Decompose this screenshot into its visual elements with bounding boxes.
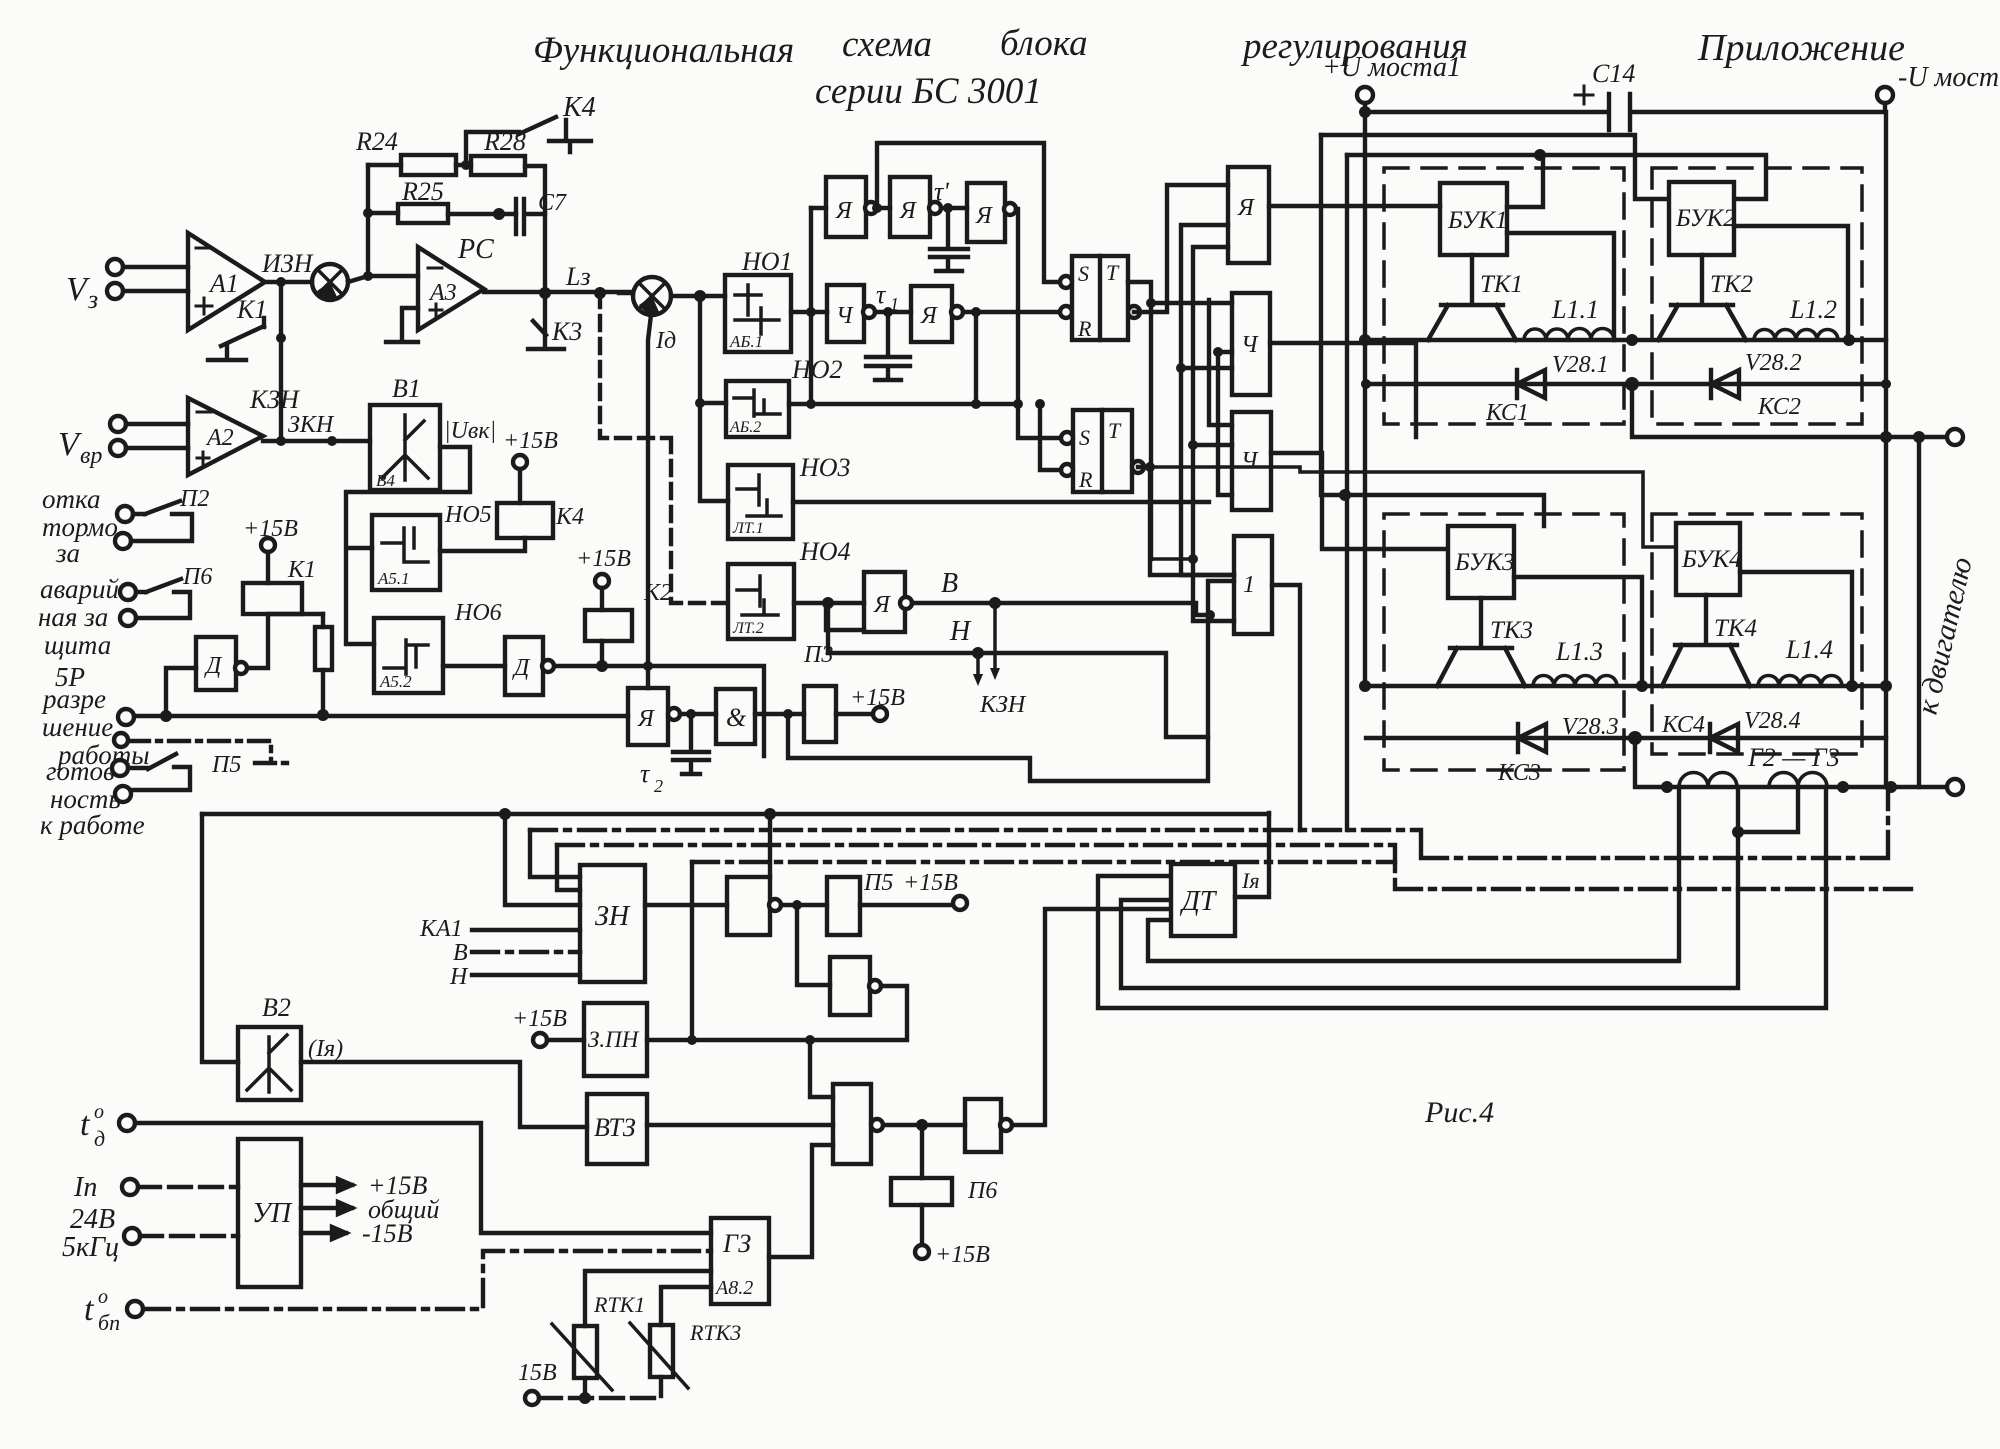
svg-text:Я: Я xyxy=(1237,195,1255,221)
svg-text:блока: блока xyxy=(1000,23,1088,64)
svg-text:АБ.2: АБ.2 xyxy=(729,419,761,436)
wire БУК1 output riser xyxy=(1507,233,1614,340)
svg-text:t: t xyxy=(84,1291,95,1328)
svg-text:КЗН: КЗН xyxy=(249,385,300,414)
node t°бп input xyxy=(84,1286,120,1335)
svg-text:R: R xyxy=(1078,467,1093,492)
svg-text:Ч: Ч xyxy=(1241,332,1259,358)
gate B (row1) xyxy=(890,177,930,237)
wire БУК2 output riser xyxy=(1734,226,1848,340)
wire bus v1 stub to Г2 xyxy=(1151,301,1232,305)
svg-text:А5.2: А5.2 xyxy=(379,672,412,691)
op-amp А2 xyxy=(188,398,263,475)
svg-text:разре: разре xyxy=(41,684,106,714)
svg-text:ДТ: ДТ xyxy=(1179,886,1218,917)
svg-text:аварий: аварий xyxy=(40,574,120,604)
wire bus v3 xyxy=(1181,225,1234,575)
svg-text:НО2: НО2 xyxy=(791,355,843,384)
wire В1 output loop down to НО5/НО6 xyxy=(346,447,470,644)
trigger Т2 (S-R) xyxy=(1061,410,1144,492)
wire Lз node to multiplier xyxy=(619,291,633,295)
svg-text:Приложение: Приложение xyxy=(1697,27,1905,69)
wire БУК1 top link xyxy=(1507,155,1543,207)
svg-text:В4: В4 xyxy=(376,471,395,490)
svg-text:А5.1: А5.1 xyxy=(377,569,410,588)
node КЗН arrows xyxy=(978,603,995,680)
wire БУК3 output riser xyxy=(1514,577,1642,686)
wire В2 loop vertical xyxy=(202,814,238,1062)
gate НЕ2 xyxy=(797,905,830,985)
diode line 2 xyxy=(1366,736,1886,740)
gate НЕ5 xyxy=(965,1099,1001,1152)
svg-text:ная за: ная за xyxy=(38,602,108,632)
wire right inner vertical xyxy=(1917,437,1921,787)
switch К1 (contact to ground) xyxy=(208,295,267,360)
wire module2 output line xyxy=(1635,738,1948,787)
multiplier Lд xyxy=(633,277,676,354)
wire Г2 output to module mid line xyxy=(1270,343,1416,437)
svg-text:+15В: +15В xyxy=(576,546,631,572)
wire multiplier bottom to Я-gate xyxy=(648,315,651,688)
svg-text:П6: П6 xyxy=(967,1178,997,1204)
wire ВТЗ output to НЕ4 xyxy=(647,1123,833,1127)
gate Г3 xyxy=(1232,412,1271,510)
svg-text:Г2 — Г3: Г2 — Г3 xyxy=(1747,743,1840,772)
wire multiplier to A3 summing node xyxy=(348,276,418,282)
svg-text:L1.2: L1.2 xyxy=(1789,295,1837,324)
wire ГЗ output to НЕ4 xyxy=(769,1145,833,1257)
wire НО2 output line xyxy=(789,312,1018,404)
wire Н bus stub to Г3 xyxy=(1209,300,1232,425)
wire bus1 xyxy=(202,812,1269,816)
wire bus3 drop to ЗН xyxy=(557,845,580,890)
svg-text:R25: R25 xyxy=(401,177,444,206)
wire Lд node down to НО2 / НО3 xyxy=(700,296,728,501)
svg-text:В: В xyxy=(941,568,958,599)
gate E (row2) xyxy=(911,286,952,342)
svg-text:Я: Я xyxy=(873,592,891,618)
svg-text:(Iя): (Iя) xyxy=(308,1036,343,1062)
svg-text:o: o xyxy=(94,1101,104,1123)
svg-text:RТК1: RТК1 xyxy=(593,1292,645,1317)
node t°д input xyxy=(80,1101,105,1151)
svg-text:S: S xyxy=(1078,261,1089,286)
svg-text:А2: А2 xyxy=(205,425,234,451)
svg-text:Я: Я xyxy=(920,303,938,329)
wire НЕ2 out to ЗПН line xyxy=(810,986,907,1040)
wire bus2 drop to ЗН xyxy=(530,830,580,877)
svg-text:отка: отка xyxy=(42,484,100,514)
wire bus1 drop at 770 xyxy=(768,814,772,877)
svg-text:БУК1: БУК1 xyxy=(1447,207,1508,234)
gate Г2 xyxy=(1232,293,1270,395)
svg-text:R24: R24 xyxy=(355,127,398,156)
svg-text:КА1: КА1 xyxy=(419,916,463,942)
svg-text:К1: К1 xyxy=(287,557,316,583)
svg-text:15В: 15В xyxy=(518,1360,557,1386)
wire Т2 output to БУК4 feed line xyxy=(1138,467,1234,575)
wire branch down to bus xyxy=(788,581,1234,781)
multiplier (Из·Н) xyxy=(312,264,348,300)
relay П6 xyxy=(920,1125,924,1178)
wire В2 output to ВТЗ xyxy=(301,1062,587,1127)
svg-text:П2: П2 xyxy=(179,486,209,512)
svg-text:Н: Н xyxy=(949,616,972,647)
svg-text:L1.3: L1.3 xyxy=(1555,637,1603,666)
block ВТЗ xyxy=(587,1094,647,1164)
wire upper loop y155 xyxy=(1347,155,1766,199)
block БУК2 xyxy=(1669,182,1734,255)
svg-text:П5: П5 xyxy=(863,870,893,896)
svg-text:t: t xyxy=(80,1106,91,1143)
wire Г1 output into БУК1 xyxy=(1269,204,1440,208)
svg-text:|Uвк|: |Uвк| xyxy=(444,418,496,444)
svg-text:Iя: Iя xyxy=(1241,868,1260,893)
node Vз input terminals xyxy=(66,259,123,314)
svg-text:ТК3: ТК3 xyxy=(1490,617,1533,644)
svg-text:V28.3: V28.3 xyxy=(1562,714,1619,740)
svg-text:вр: вр xyxy=(80,443,102,469)
svg-text:серии БС 3001: серии БС 3001 xyxy=(815,71,1042,112)
svg-text:КС3: КС3 xyxy=(1497,760,1541,786)
logic gate Д2 xyxy=(505,637,543,695)
svg-text:ЛТ.2: ЛТ.2 xyxy=(732,620,764,637)
svg-text:Функциональная: Функциональная xyxy=(533,30,794,71)
svg-text:ИЗН: ИЗН xyxy=(261,249,314,278)
wire bus4 xyxy=(692,860,1395,864)
wire C out down to trigger2 S xyxy=(1016,209,1066,438)
trigger Т1 (S-R) xyxy=(1060,256,1140,341)
block УП xyxy=(238,1139,301,1287)
svg-text:БУК2: БУК2 xyxy=(1675,205,1736,232)
block БУК3 xyxy=(1448,526,1514,598)
wire Г3 output to БУК3 xyxy=(1271,453,1448,549)
svg-text:П5: П5 xyxy=(211,752,241,778)
wire left loop verticals xyxy=(1321,135,1544,526)
svg-text:Я: Я xyxy=(975,203,993,229)
svg-text:Я: Я xyxy=(637,706,655,732)
wire right edge bus xyxy=(1884,112,1888,787)
wire multiplier output xyxy=(671,294,725,298)
svg-text:L1.4: L1.4 xyxy=(1785,635,1833,664)
svg-text:+15В: +15В xyxy=(935,1242,990,1268)
svg-text:Я: Я xyxy=(835,198,853,224)
svg-text:RТК3: RТК3 xyxy=(689,1320,741,1345)
node УП outputs xyxy=(301,1179,352,1191)
wire Г4 output down to bus xyxy=(1272,585,1300,830)
svg-text:КЗН: КЗН xyxy=(979,692,1027,718)
svg-text:Iд: Iд xyxy=(655,328,676,354)
svg-text:БУК3: БУК3 xyxy=(1454,549,1515,576)
capacitor τ2 xyxy=(673,714,709,774)
svg-text:τ: τ xyxy=(640,759,651,788)
gate & xyxy=(716,689,755,744)
svg-text:+15В: +15В xyxy=(512,1006,567,1032)
svg-text:БУК4: БУК4 xyxy=(1681,546,1742,573)
module 3 dashed box xyxy=(1384,514,1624,770)
wire ДТ output riser xyxy=(1235,813,1269,897)
svg-text:УП: УП xyxy=(252,1198,293,1229)
gate Г4 xyxy=(1234,536,1272,634)
gate Г1 xyxy=(1228,167,1269,263)
wire dashed А3 feedback down / to НО4 xyxy=(600,293,728,603)
wire t°бп to ГЗ xyxy=(143,1251,711,1309)
wire Г2/Г3 mid tap xyxy=(1121,787,1798,988)
node Vвр input terminals xyxy=(58,416,126,469)
wire riser row1 input xyxy=(809,208,813,404)
capacitor τ'1 xyxy=(930,208,968,271)
wire feedback left rail xyxy=(366,165,370,276)
wire module1 output line xyxy=(1632,384,1948,437)
svg-text:к работе: к работе xyxy=(40,810,145,840)
node КА1 В Н inputs xyxy=(419,916,469,990)
capacitor τ1 xyxy=(866,312,910,380)
svg-text:R: R xyxy=(1077,316,1092,341)
node аварийная защита 5Р input xyxy=(38,574,120,692)
svg-text:схема: схема xyxy=(842,24,932,65)
svg-text:РС: РС xyxy=(457,234,494,265)
wire bus3 (dash-dot) xyxy=(557,845,1918,889)
node Iп 24В 5кГц inputs xyxy=(62,1172,119,1263)
svg-text:В1: В1 xyxy=(392,374,421,403)
gate D (row2) xyxy=(827,285,864,342)
svg-text:КС2: КС2 xyxy=(1757,394,1801,420)
svg-text:А1: А1 xyxy=(208,269,239,298)
svg-text:шение: шение xyxy=(42,712,113,742)
wire bus v6 xyxy=(1218,352,1232,495)
wire Vз to A1 xyxy=(123,267,188,291)
wire E out to trigger R xyxy=(963,310,1066,314)
svg-text:+15В: +15В xyxy=(850,685,905,711)
svg-text:τʹ: τʹ xyxy=(934,177,949,206)
block БУК4 xyxy=(1676,523,1740,595)
gate A (row1) xyxy=(826,177,866,237)
node ОТКЛ ТОРМОЗА input xyxy=(42,484,118,568)
svg-text:д: д xyxy=(94,1126,105,1151)
resistor R (К1 circuit) xyxy=(315,627,332,670)
svg-text:З.ПН: З.ПН xyxy=(588,1027,640,1052)
gate Я (τ2 input) xyxy=(628,688,668,745)
emitter rail module2 xyxy=(1366,684,1886,688)
svg-text:П6: П6 xyxy=(182,564,212,590)
svg-text:Iп: Iп xyxy=(73,1172,97,1203)
title: Функциональная схема блока регулирования серии БС 3001 xyxy=(533,23,1905,1129)
svg-text:ТК1: ТК1 xyxy=(1480,271,1523,298)
svg-text:5кГц: 5кГц xyxy=(62,1232,119,1263)
svg-text:-U моста: -U моста xyxy=(1898,62,2000,93)
wire НЕ4 out to НЕ5 xyxy=(883,1123,965,1127)
logic gate Д1 xyxy=(196,637,236,690)
wire В line xyxy=(912,603,1208,615)
svg-text:А8.2: А8.2 xyxy=(714,1277,753,1299)
wire to trigger2 R xyxy=(1040,404,1061,470)
svg-text:Ч: Ч xyxy=(836,303,854,329)
wire D out to E xyxy=(875,310,911,314)
svg-text:24В: 24В xyxy=(70,1204,115,1235)
wire Д2 output / К2 node xyxy=(554,641,764,756)
svg-text:С14: С14 xyxy=(1592,59,1635,88)
wire Н line xyxy=(978,653,1208,737)
wire bus1 drop to ЗН xyxy=(505,814,580,905)
svg-text:К3: К3 xyxy=(551,317,582,346)
svg-text:ВТЗ: ВТЗ xyxy=(594,1113,636,1142)
block ЗН xyxy=(580,865,645,982)
svg-text:щита: щита xyxy=(44,630,111,660)
wire А2 output to В1 xyxy=(263,439,370,443)
svg-text:Lз: Lз xyxy=(565,262,591,291)
svg-text:Рис.4: Рис.4 xyxy=(1424,1096,1494,1129)
svg-text:НО4: НО4 xyxy=(799,537,851,566)
svg-text:НО1: НО1 xyxy=(741,247,793,276)
wire БУК4 output riser xyxy=(1740,572,1852,686)
wire upper loop y135 to БУК2 xyxy=(1321,135,1669,199)
block БУК1 xyxy=(1440,183,1507,255)
wire НО3 output xyxy=(793,500,1209,504)
gate В/Н inverter xyxy=(864,572,905,632)
svg-text:НО6: НО6 xyxy=(454,600,502,626)
transformer Г3 xyxy=(1769,773,1827,788)
wire A out / feedback loop to trigger S xyxy=(877,143,1066,282)
node разрешение работы input xyxy=(41,684,150,770)
wire A1 out to multiplier xyxy=(265,280,312,284)
gate НЕ4 (big) xyxy=(833,1084,871,1164)
svg-text:В2: В2 xyxy=(262,993,291,1022)
wire К1 bottom node xyxy=(243,614,323,668)
wire разрешение long line xyxy=(134,714,628,718)
svg-text:КС1: КС1 xyxy=(1485,400,1529,426)
svg-text:ГЗ: ГЗ xyxy=(722,1229,751,1258)
module 2 dashed box xyxy=(1652,168,1862,424)
svg-text:ТК4: ТК4 xyxy=(1714,615,1757,642)
wire +U vertical feed xyxy=(1363,112,1367,686)
wire НО1 output to row gates xyxy=(791,310,827,314)
svg-text:o: o xyxy=(98,1286,108,1308)
svg-text:ЗН: ЗН xyxy=(595,901,631,932)
wire НЕ5 out up to ДТ line xyxy=(1012,909,1171,1125)
gate C (row1) xyxy=(967,183,1005,242)
wire ЗН output xyxy=(645,903,727,907)
svg-text:А3: А3 xyxy=(428,280,457,306)
svg-text:АБ.1: АБ.1 xyxy=(729,332,763,351)
block ГЗ xyxy=(711,1218,769,1304)
svg-text:ТК2: ТК2 xyxy=(1710,271,1753,298)
wire Г3 tap down to ДТ xyxy=(1098,787,1826,1008)
wire НО4 output / В-Н gate xyxy=(794,603,864,630)
svg-text:К4: К4 xyxy=(555,504,584,530)
svg-text:1: 1 xyxy=(1243,572,1255,598)
emitter rail module1 xyxy=(1366,338,1886,342)
wire bus v1 bottom stub xyxy=(1151,557,1193,561)
wire Д1 input riser from разрешение line xyxy=(166,668,196,715)
svg-text:+U моста1: +U моста1 xyxy=(1322,52,1461,83)
svg-text:V28.2: V28.2 xyxy=(1745,350,1802,376)
svg-text:готов: готов xyxy=(46,756,115,786)
svg-text:Т: Т xyxy=(1106,260,1120,285)
svg-text:з: з xyxy=(87,285,98,314)
svg-text:Д: Д xyxy=(512,655,531,681)
wire to П5 resistor xyxy=(781,903,827,907)
svg-text:НО5: НО5 xyxy=(444,502,492,528)
wire Т1 output riser to gate Г1 xyxy=(1134,185,1228,312)
svg-text:Ч: Ч xyxy=(1241,448,1259,474)
wire Г2 tap down to ДТ xyxy=(1148,787,1679,961)
svg-text:S: S xyxy=(1079,425,1090,450)
svg-text:Д: Д xyxy=(204,653,223,679)
wire bus v4 xyxy=(1193,247,1234,621)
svg-text:КС4: КС4 xyxy=(1661,712,1705,738)
wire А3 output node Lз xyxy=(484,290,633,294)
wire t°д to ГЗ xyxy=(135,1123,711,1233)
switch К3 to ground from Lз node xyxy=(528,293,564,349)
svg-text:&: & xyxy=(726,703,747,732)
wire bus2 (dash) xyxy=(530,787,1888,858)
svg-text:Т: Т xyxy=(1108,418,1122,443)
module 1 dashed box xyxy=(1384,168,1624,424)
block ДТ xyxy=(1171,864,1235,936)
svg-text:Н: Н xyxy=(449,964,469,990)
svg-text:+15В: +15В xyxy=(503,428,558,454)
wire ИЗН node down to ЗКН node xyxy=(279,282,283,441)
wire Т1 upper output xyxy=(1128,282,1151,559)
svg-text:τ: τ xyxy=(876,280,887,309)
svg-text:за: за xyxy=(55,538,80,568)
svg-text:2: 2 xyxy=(654,776,663,796)
svg-text:V28.1: V28.1 xyxy=(1552,352,1609,378)
wire НО6 to Д2 xyxy=(443,664,505,668)
op-amp А1 xyxy=(188,233,265,330)
wire Vвр to А2 xyxy=(126,424,188,448)
svg-text:Я: Я xyxy=(899,198,917,224)
module 4 dashed box xyxy=(1652,514,1862,754)
svg-text:П3: П3 xyxy=(803,642,833,668)
svg-text:-15В: -15В xyxy=(362,1219,413,1248)
switch П5 (готовность к работе) xyxy=(114,733,128,747)
svg-text:ЗКН: ЗКН xyxy=(288,412,335,438)
wire & out to П3 xyxy=(755,712,804,716)
svg-text:ЛТ.1: ЛТ.1 xyxy=(732,520,764,537)
svg-text:V28.4: V28.4 xyxy=(1744,708,1801,734)
svg-text:бп: бп xyxy=(98,1310,120,1335)
svg-text:НО3: НО3 xyxy=(799,453,851,482)
wire Я out to & xyxy=(680,712,716,716)
svg-text:В: В xyxy=(453,940,468,966)
limiter В1 xyxy=(370,374,496,490)
svg-text:+15В: +15В xyxy=(903,870,958,896)
gate НЕ1 (ЗН out) xyxy=(727,877,770,935)
wire B out to C xyxy=(941,206,967,210)
svg-text:L1.1: L1.1 xyxy=(1551,295,1599,324)
ground on А3 + input xyxy=(386,308,418,342)
